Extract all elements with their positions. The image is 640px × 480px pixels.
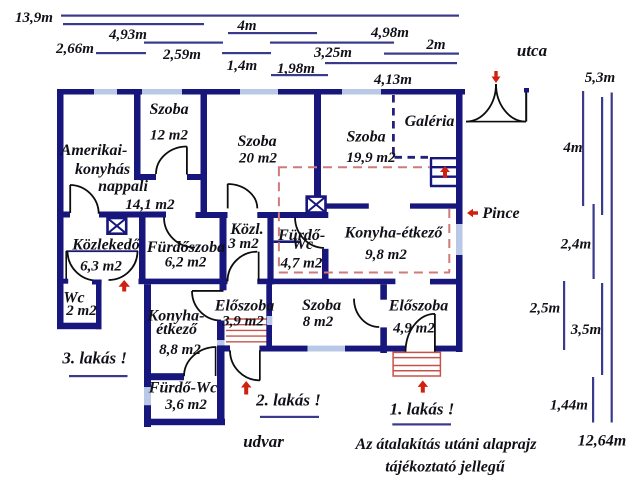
szoba12 bottom wall left	[134, 174, 156, 180]
top wall navy segments	[57, 89, 465, 95]
svg-text:8,8 m2: 8,8 m2	[159, 342, 201, 358]
svg-text:8 m2: 8 m2	[303, 314, 334, 330]
svg-text:udvar: udvar	[243, 432, 284, 451]
svg-text:3,6 m2: 3,6 m2	[164, 397, 207, 413]
svg-text:Amerikai-: Amerikai-	[60, 142, 128, 159]
wall furdo-wc36 east upper	[217, 321, 225, 341]
window right wall	[456, 224, 463, 255]
window furdo-wc36 west	[144, 387, 151, 405]
dimension line 4,13m	[325, 62, 457, 64]
dimension underline 1,98m	[271, 74, 328, 76]
svg-text:6,3 m2: 6,3 m2	[80, 259, 122, 275]
right dim line 5,3m	[601, 97, 603, 215]
kozlekedo double door left arc	[68, 251, 98, 281]
svg-text:Szoba: Szoba	[346, 129, 385, 146]
wall kozl west	[220, 218, 227, 291]
right exterior wall upper	[456, 89, 463, 224]
svg-text:étkező: étkező	[156, 321, 198, 338]
wall Szoba20-Szoba19,9	[314, 94, 321, 197]
door south-entry arc	[230, 350, 260, 380]
red arrow galeria stairs	[440, 166, 450, 178]
svg-text:Előszoba: Előszoba	[214, 298, 275, 315]
underline 3. lakas	[69, 375, 128, 377]
wall szoba8 west	[266, 284, 272, 350]
door szoba8 arc	[354, 299, 379, 327]
main mid wall y212 segment D	[257, 212, 328, 218]
svg-text:9,8 m2: 9,8 m2	[365, 247, 407, 263]
right dim line 2,4m	[593, 204, 595, 279]
svg-text:12 m2: 12 m2	[150, 128, 188, 144]
svg-text:4m: 4m	[236, 18, 256, 34]
svg-text:1. lakás !: 1. lakás !	[390, 399, 455, 418]
svg-text:3,5m: 3,5m	[570, 322, 601, 338]
bottom wall right segment	[435, 346, 463, 352]
door furdo-wc47 arc	[295, 218, 324, 249]
svg-text:tájékoztató jellegű: tájékoztató jellegű	[385, 459, 506, 476]
door eloszoba49 leaf	[434, 314, 436, 352]
main mid wall y212 segment A	[64, 212, 71, 218]
svg-text:4,93m: 4,93m	[108, 27, 147, 43]
svg-text:19,9 m2: 19,9 m2	[346, 150, 396, 166]
mid-bottom wall right-east segment	[430, 279, 457, 285]
door nappali arc	[70, 185, 99, 214]
wall nappali-Szoba12	[134, 94, 141, 180]
red stairs 1lakas	[393, 352, 440, 376]
gate right post cap	[524, 88, 529, 93]
door szoba20 arc	[228, 184, 258, 208]
right dim line 1,44m	[592, 377, 594, 423]
svg-text:Konyha-étkező: Konyha-étkező	[344, 225, 444, 242]
door furdo-wc36 leaf	[215, 347, 217, 376]
kozlekedo double door left leaf	[65, 251, 67, 280]
svg-text:2m: 2m	[425, 37, 445, 53]
svg-text:4m: 4m	[562, 140, 582, 156]
door eloszoba39 arc	[192, 291, 221, 321]
szoba12 bottom wall right	[187, 174, 207, 180]
door kozl-bottom leaf	[258, 252, 260, 282]
mid-bottom wall stub left	[57, 279, 68, 284]
stairs galeria box	[430, 158, 458, 186]
wall furdo-wc36 west lower	[144, 405, 151, 427]
svg-text:3. lakás !: 3. lakás !	[61, 349, 127, 368]
svg-text:konyhás: konyhás	[75, 161, 130, 178]
dimension line 4,93m	[144, 42, 223, 44]
dimension line 13,9m	[61, 15, 459, 17]
svg-text:4,7 m2: 4,7 m2	[280, 255, 323, 271]
wall konyha98 north right	[410, 203, 457, 208]
wall konyha98 north left	[325, 203, 368, 208]
bottom wall szoba8 segment	[259, 346, 307, 352]
wall furdo-wc47 east	[322, 249, 329, 284]
wall wc east	[96, 285, 102, 330]
window top wall 1	[94, 89, 117, 95]
dimension line second top	[63, 23, 204, 25]
svg-text:6,2 m2: 6,2 m2	[165, 255, 207, 271]
door furdo-wc36 arc	[184, 347, 216, 376]
svg-text:3,25m: 3,25m	[313, 45, 352, 61]
svg-text:nappali: nappali	[98, 178, 148, 195]
dimension line 2,66m	[96, 52, 146, 54]
dimension line 4,98m	[270, 42, 394, 44]
main mid wall y212 segment C	[196, 212, 228, 218]
right dim line 4m	[582, 91, 584, 206]
mid-bottom wall long right	[257, 279, 395, 285]
window furdo-wc36 east	[217, 340, 225, 347]
partition furdo-wc47	[274, 240, 299, 243]
right dim line 2,5m	[563, 281, 565, 350]
wall konyha88 west upper	[144, 284, 151, 387]
svg-text:2,5m: 2,5m	[529, 301, 560, 317]
underline 1. lakas	[392, 423, 451, 425]
kozlekedo double door right arc	[109, 251, 138, 280]
furdo-wc36 top wall	[146, 373, 184, 380]
svg-text:1,4m: 1,4m	[227, 58, 257, 74]
svg-text:Fürdő-Wc: Fürdő-Wc	[148, 380, 217, 397]
door szoba12 arc	[156, 147, 187, 175]
red dashed rect left edge	[278, 167, 280, 272]
gate left arc	[466, 84, 496, 122]
wall furdo-wc36 east lower	[217, 347, 225, 425]
svg-text:Közlekedő: Közlekedő	[71, 237, 141, 254]
svg-text:5,3m: 5,3m	[585, 70, 615, 86]
svg-text:4,9 m2: 4,9 m2	[392, 321, 435, 337]
red stairs eloszoba39	[226, 319, 267, 342]
red arrow 1lakas	[418, 380, 429, 392]
wall szoba8 east upper	[380, 284, 387, 300]
door south-entry leaf	[259, 350, 261, 380]
red dashed rect right edge	[448, 209, 450, 273]
svg-text:Szoba: Szoba	[302, 297, 341, 314]
svg-text:1,44m: 1,44m	[550, 398, 588, 414]
svg-text:4,98m: 4,98m	[370, 25, 409, 41]
svg-text:12,64m: 12,64m	[578, 433, 626, 450]
red dashed rect bottom edge	[279, 272, 450, 274]
wall szoba8 east lower	[380, 327, 387, 353]
svg-text:3,9 m2: 3,9 m2	[221, 314, 264, 330]
svg-text:4,13m: 4,13m	[373, 72, 412, 88]
red arrow utca down	[492, 71, 501, 83]
svg-text:Fürdőszoba: Fürdőszoba	[146, 239, 225, 256]
galeria dashed wall vertical	[392, 95, 395, 157]
svg-text:Pince: Pince	[481, 205, 519, 222]
svg-text:20 m2: 20 m2	[238, 151, 277, 167]
window top wall 4	[342, 89, 381, 95]
wall Szoba12-Szoba20	[201, 94, 208, 214]
svg-text:Szoba: Szoba	[149, 101, 188, 118]
window szoba8 south	[308, 346, 346, 352]
door szoba12 leaf	[186, 147, 188, 175]
mid-bottom wall long left	[139, 279, 228, 285]
dimension line 4m top	[228, 32, 317, 34]
left exterior wall	[57, 89, 64, 329]
furdo-wc36 bottom wall	[144, 419, 225, 426]
wall furdoszoba west	[139, 218, 146, 285]
svg-text:3 m2: 3 m2	[227, 236, 259, 252]
door eloszoba39 leaf line	[192, 290, 224, 292]
dimension line 2,59m	[222, 52, 271, 54]
door furdoszoba arc	[164, 218, 195, 248]
right dim line 12,64m	[611, 93, 613, 423]
svg-text:Galéria: Galéria	[405, 113, 455, 130]
door eloszoba49 arc	[406, 314, 436, 352]
door nappali leaf	[69, 185, 71, 213]
svg-text:2. lakás !: 2. lakás !	[255, 391, 321, 410]
svg-text:Az átalakítás utáni alaprajz: Az átalakítás utáni alaprajz	[355, 436, 538, 453]
gate bottom line	[466, 121, 526, 123]
main mid wall y212 segment B	[99, 212, 166, 218]
svg-text:Szoba: Szoba	[237, 133, 276, 150]
svg-text:2,66m: 2,66m	[55, 41, 94, 57]
kozlekedo lintel line	[66, 250, 138, 252]
bottom wall east of window	[345, 346, 406, 352]
red arrow 2lakas entry	[241, 381, 252, 395]
svg-text:Előszoba: Előszoba	[388, 298, 449, 315]
door kozl-bottom arc	[228, 252, 258, 282]
window dot szoba8 west	[267, 316, 273, 325]
right exterior wall lower	[456, 255, 463, 352]
svg-text:2 m2: 2 m2	[65, 303, 97, 319]
window top wall 2	[142, 89, 182, 95]
svg-text:utca: utca	[517, 41, 548, 60]
underline 2. lakas	[260, 416, 319, 418]
bottom wall south stub	[217, 345, 230, 351]
gate right post	[525, 92, 527, 122]
pince red arrow	[467, 209, 478, 217]
window top wall 3	[240, 89, 278, 95]
flue box X 1	[108, 218, 127, 234]
svg-text:2,4m: 2,4m	[560, 237, 591, 253]
galeria dashed wall horizontal	[395, 156, 431, 159]
svg-text:13,9m: 13,9m	[15, 10, 53, 26]
wall kozl east	[267, 214, 273, 285]
svg-text:Wc: Wc	[292, 236, 313, 253]
door szoba20 leaf	[227, 184, 229, 208]
gate right arc	[496, 84, 526, 122]
svg-text:2,59m: 2,59m	[162, 47, 201, 63]
svg-text:14,1 m2: 14,1 m2	[125, 197, 175, 213]
red arrow lobby up	[119, 280, 131, 292]
mid-bottom wall wc piece	[92, 280, 102, 285]
right dim line 3,5m	[601, 283, 603, 375]
dimension line 3,25m-2m	[384, 53, 459, 55]
wc bottom wall	[57, 323, 102, 330]
red dashed rect top edge	[278, 166, 430, 168]
flue box X 2	[307, 197, 326, 213]
